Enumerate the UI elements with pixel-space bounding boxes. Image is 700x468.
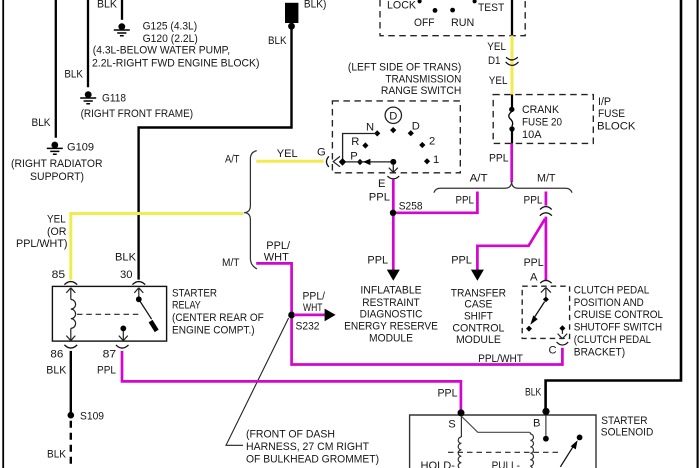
svg-text:SHUTOFF SWITCH: SHUTOFF SWITCH: [574, 322, 662, 334]
svg-text:N: N: [366, 121, 374, 133]
svg-text:MODULE: MODULE: [369, 332, 413, 344]
svg-text:G: G: [317, 147, 326, 159]
svg-text:CRUISE CONTROL: CRUISE CONTROL: [574, 309, 663, 321]
svg-text:C: C: [549, 344, 557, 356]
svg-text:SOLENOID: SOLENOID: [601, 427, 654, 439]
wire YEL ignition to I/P fuse block: [511, 36, 514, 95]
svg-text:S258: S258: [399, 201, 423, 213]
svg-text:(CLUTCH PEDAL: (CLUTCH PEDAL: [574, 334, 651, 346]
svg-text:BLK: BLK: [525, 387, 542, 399]
wire YEL A/T branch to pin G: [256, 160, 323, 163]
wire PPL connector to clutch switch pin A: [545, 217, 548, 281]
svg-text:PPL: PPL: [451, 255, 472, 267]
moving contact arrow on P line: [363, 159, 370, 165]
svg-text:STARTER: STARTER: [172, 287, 217, 299]
svg-text:BLK: BLK: [268, 35, 287, 47]
solenoid terminal B dot: [542, 408, 549, 415]
wire BLK right side to starter solenoid B: [546, 0, 681, 410]
wire PPL range switch pin E through S258 to module: [392, 179, 395, 270]
solenoid internal dashed link: [448, 451, 559, 453]
solenoid pull-in coil: [530, 432, 533, 468]
wire PPL branch to transfer case module: [477, 219, 545, 271]
splice S258: [390, 210, 396, 216]
svg-text:BLK: BLK: [32, 117, 51, 129]
svg-text:A/T: A/T: [470, 172, 488, 184]
svg-text:(4.3L-BELOW WATER PUMP,: (4.3L-BELOW WATER PUMP,: [93, 45, 230, 57]
starter solenoid box: [410, 415, 596, 468]
pin G connector of range switch: [326, 156, 346, 167]
svg-text:ENGINE COMPT.): ENGINE COMPT.): [172, 324, 255, 336]
svg-text:2.2L-RIGHT FWD ENGINE BLOCK): 2.2L-RIGHT FWD ENGINE BLOCK): [92, 58, 260, 70]
svg-text:(CENTER REAR OF: (CENTER REAR OF: [172, 312, 264, 324]
svg-text:PPL/: PPL/: [303, 290, 326, 302]
svg-text:CLUTCH PEDAL: CLUTCH PEDAL: [574, 284, 650, 296]
svg-text:YEL: YEL: [487, 41, 506, 53]
svg-text:I/P: I/P: [598, 96, 611, 108]
wire YEL (OR PPL/WHT) from brace to starter relay 85: [71, 214, 244, 280]
range switch contact dots and position labels: [357, 127, 430, 165]
arrow into inflatable restraint module: [387, 270, 400, 281]
svg-text:PPL: PPL: [489, 153, 509, 165]
svg-text:PPL: PPL: [438, 388, 458, 400]
clutch switch pin A: [540, 280, 551, 297]
solenoid terminal S dot: [458, 409, 465, 416]
svg-text:PPL: PPL: [524, 257, 544, 269]
svg-text:10A: 10A: [522, 129, 542, 141]
wire BLK dashed below S109: [70, 421, 72, 468]
svg-text:PPL: PPL: [367, 255, 388, 267]
svg-text:LOCK: LOCK: [387, 0, 417, 11]
relay pin 87 socket arc: [116, 345, 129, 348]
connector (black body) at top: [285, 3, 298, 23]
svg-text:CONTROL: CONTROL: [452, 323, 504, 335]
svg-text:87: 87: [103, 349, 117, 361]
arrow into transfer case module: [471, 270, 484, 281]
svg-text:2: 2: [429, 136, 435, 148]
svg-text:TEST: TEST: [478, 2, 504, 14]
starter relay box: [52, 286, 166, 341]
svg-text:PPL/WHT): PPL/WHT): [16, 238, 68, 250]
pin E of range switch: [387, 164, 399, 179]
splice S232: [288, 312, 295, 319]
svg-text:BLK: BLK: [97, 0, 117, 10]
svg-text:BLOCK: BLOCK: [597, 120, 636, 132]
range switch internal wiring N-G-P-E: [343, 134, 394, 162]
relay internal dashed link: [77, 313, 141, 315]
svg-text:FUSE: FUSE: [598, 108, 625, 120]
wire BLK to G125/G120: [121, 0, 123, 20]
wire left page border: [2, 0, 4, 468]
wire PPL/WHT stub with arrow from S232: [294, 314, 325, 317]
solenoid switch arm: [560, 435, 582, 467]
svg-text:PPL/WHT: PPL/WHT: [478, 353, 523, 365]
fuse CRANK FUSE 20 10A: [509, 95, 515, 144]
svg-text:BLK: BLK: [47, 449, 66, 461]
svg-text:WHT: WHT: [303, 302, 323, 314]
solenoid hold-in coil: [458, 416, 461, 468]
ignition switch contact dots: [433, 8, 438, 13]
inline connector on M/T PPL wire: [540, 207, 552, 216]
relay pin 30 socket arc: [132, 282, 145, 285]
wire PPL fuse to A/T-M/T split brace: [510, 143, 513, 182]
svg-text:POSITION AND: POSITION AND: [574, 297, 644, 309]
wire from ignition switch (black, inside box): [511, 0, 513, 37]
svg-text:INFLATABLE: INFLATABLE: [360, 285, 421, 297]
wire PPL M/T branch from brace to inline connector: [545, 192, 548, 206]
svg-text:FUSE 20: FUSE 20: [522, 117, 562, 129]
wire PPL relay 87 to starter solenoid S: [122, 351, 461, 410]
ground G109: [47, 142, 63, 155]
I/P fuse block box (dashed): [493, 95, 593, 144]
clutch switch contact C and pin C: [557, 325, 569, 345]
svg-text:R: R: [351, 136, 359, 148]
svg-text:G118: G118: [102, 93, 126, 105]
svg-text:SHIFT: SHIFT: [464, 311, 493, 323]
inline connector D1: [506, 57, 519, 65]
wire PPL A/T branch from brace to S258: [393, 192, 478, 213]
wire right page border: [697, 0, 699, 468]
svg-text:M/T: M/T: [537, 172, 556, 184]
solenoid B contact: [543, 415, 549, 441]
clutch switch pivot and arm: [526, 297, 549, 332]
transmission range switch box (dashed): [332, 101, 460, 173]
svg-text:BLK): BLK): [304, 0, 327, 10]
wire BLK to G109: [55, 0, 57, 138]
callout line to S232: [226, 318, 289, 445]
svg-text:(FRONT OF DASH: (FRONT OF DASH: [246, 429, 335, 441]
svg-text:SUPPORT): SUPPORT): [30, 171, 84, 183]
svg-text:TRANSMISSION: TRANSMISSION: [385, 74, 461, 86]
range switch indicator circle D: [385, 107, 401, 123]
svg-text:HOLD-: HOLD-: [421, 460, 456, 468]
svg-text:A/T: A/T: [225, 153, 240, 165]
wire PPL/WHT M/T branch from brace to S232: [256, 263, 562, 364]
svg-text:RESTRAINT: RESTRAINT: [362, 297, 420, 309]
svg-text:D: D: [389, 111, 397, 123]
ignition switch box (dashed): [380, 0, 525, 36]
splice S109: [68, 412, 75, 419]
brace split A/T / M/T (horizontal, from fuse PPL): [434, 181, 572, 193]
svg-text:(RIGHT FRONT FRAME): (RIGHT FRONT FRAME): [81, 108, 194, 120]
relay switch arm 30-87: [134, 288, 156, 331]
svg-text:OFF: OFF: [414, 17, 435, 29]
svg-text:DIAGNOSTIC: DIAGNOSTIC: [360, 309, 423, 321]
svg-text:YEL: YEL: [277, 148, 298, 160]
svg-text:(RIGHT RADIATOR: (RIGHT RADIATOR: [11, 158, 103, 170]
svg-text:30: 30: [120, 269, 133, 281]
svg-text:D: D: [412, 121, 420, 133]
clutch pedal position switch box (dashed): [522, 286, 569, 338]
svg-text:M/T: M/T: [222, 257, 240, 269]
svg-text:D1: D1: [488, 55, 501, 67]
svg-text:BRACKET): BRACKET): [574, 346, 626, 358]
svg-text:MODULE: MODULE: [456, 334, 501, 346]
wire BLK relay 86 to S109: [70, 351, 72, 412]
ground G125/G120: [114, 23, 130, 36]
wire BLK from connector to starter relay 30: [139, 27, 292, 280]
svg-text:1: 1: [433, 154, 439, 166]
svg-text:PPL: PPL: [97, 364, 116, 376]
relay contact 87: [119, 326, 128, 341]
relay pin 85 socket arc: [64, 282, 77, 285]
svg-text:G125 (4.3L): G125 (4.3L): [143, 20, 198, 32]
svg-text:CRANK: CRANK: [522, 104, 559, 116]
svg-text:PULL-: PULL-: [492, 460, 521, 468]
svg-text:PPL: PPL: [456, 194, 475, 206]
svg-text:(LEFT SIDE OF TRANS): (LEFT SIDE OF TRANS): [348, 61, 462, 73]
svg-text:HARNESS, 27 CM RIGHT: HARNESS, 27 CM RIGHT: [246, 441, 369, 453]
svg-text:ENERGY RESERVE: ENERGY RESERVE: [344, 321, 438, 333]
svg-text:G109: G109: [67, 142, 94, 154]
svg-text:RELAY: RELAY: [172, 300, 201, 312]
svg-text:CASE: CASE: [464, 299, 492, 311]
solenoid S internal lead to pull-in coil: [461, 416, 530, 432]
junction dot under connector: [288, 23, 295, 30]
svg-text:P: P: [350, 150, 357, 162]
svg-text:86: 86: [50, 349, 63, 361]
brace split A/T / M/T (left, from YEL wire): [244, 151, 257, 269]
svg-text:(OR: (OR: [47, 226, 67, 238]
svg-text:S: S: [448, 418, 455, 430]
svg-text:A: A: [530, 272, 538, 284]
svg-text:S109: S109: [80, 411, 104, 423]
svg-text:B: B: [533, 418, 540, 430]
svg-text:WHT: WHT: [264, 251, 289, 263]
svg-text:E: E: [378, 178, 385, 190]
svg-text:TRANSFER: TRANSFER: [451, 287, 506, 299]
ground G118: [80, 91, 96, 104]
junction dot at P/E inside range switch: [390, 159, 396, 165]
svg-text:BLK: BLK: [46, 364, 66, 376]
svg-text:RUN: RUN: [451, 17, 474, 29]
relay coil 85-86: [66, 288, 75, 341]
svg-text:YEL: YEL: [47, 213, 66, 225]
svg-text:85: 85: [52, 269, 65, 281]
svg-text:PPL: PPL: [369, 192, 390, 204]
svg-text:YEL: YEL: [489, 75, 508, 87]
svg-text:PPL/: PPL/: [266, 240, 291, 252]
svg-text:OF BULKHEAD GROMMET): OF BULKHEAD GROMMET): [246, 454, 379, 466]
svg-text:S232: S232: [296, 321, 320, 333]
wire BLK to G118: [87, 0, 89, 87]
svg-text:G120 (2.2L): G120 (2.2L): [143, 33, 198, 45]
svg-text:BLK: BLK: [64, 69, 83, 81]
svg-text:RANGE SWITCH: RANGE SWITCH: [381, 85, 461, 97]
relay pin 86 socket arc: [64, 345, 77, 348]
svg-text:PPL: PPL: [524, 194, 543, 206]
svg-text:STARTER: STARTER: [601, 415, 647, 427]
svg-text:BLK: BLK: [115, 251, 137, 263]
